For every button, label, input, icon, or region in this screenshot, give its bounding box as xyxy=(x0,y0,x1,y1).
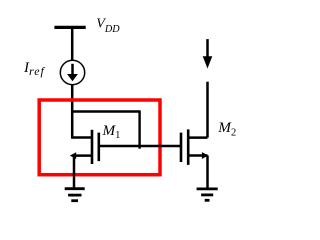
ground (M2) xyxy=(197,189,218,200)
svg-text:VDD: VDD xyxy=(96,17,120,36)
M1 source arrow xyxy=(70,152,76,159)
wire M1 drain lead xyxy=(72,136,92,139)
svg-text:M2: M2 xyxy=(217,119,236,138)
wire M2 drain xyxy=(206,82,209,138)
current source Iref circle xyxy=(60,60,84,84)
transistor M1 gate bar xyxy=(98,133,101,162)
M2 source arrow xyxy=(202,152,208,159)
svg-text:Iref: Iref xyxy=(23,60,46,78)
wire node branch top xyxy=(71,110,140,112)
wire M2 source lead xyxy=(188,154,207,157)
wire M1 source to ground xyxy=(73,156,76,189)
output current arrow xyxy=(203,39,213,68)
wire gate line M1 to M2 xyxy=(99,145,181,147)
svg-text:M1: M1 xyxy=(102,122,121,141)
VDD supply bar xyxy=(54,26,85,29)
ground (M1) xyxy=(65,189,85,201)
transistor M1 channel bar xyxy=(91,130,94,164)
wire M2 source to ground xyxy=(206,156,209,189)
red highlight box xyxy=(39,100,160,175)
transistor M2 gate bar xyxy=(180,133,183,162)
wire node branch down to gate line xyxy=(138,110,140,148)
wire current source to M1 drain node xyxy=(71,84,74,139)
transistor M2 channel bar xyxy=(187,129,190,165)
wire M1 source lead xyxy=(74,154,92,157)
current source arrow xyxy=(67,64,78,82)
wire VDD to current source xyxy=(71,27,74,61)
wire M2 drain lead xyxy=(188,136,207,139)
